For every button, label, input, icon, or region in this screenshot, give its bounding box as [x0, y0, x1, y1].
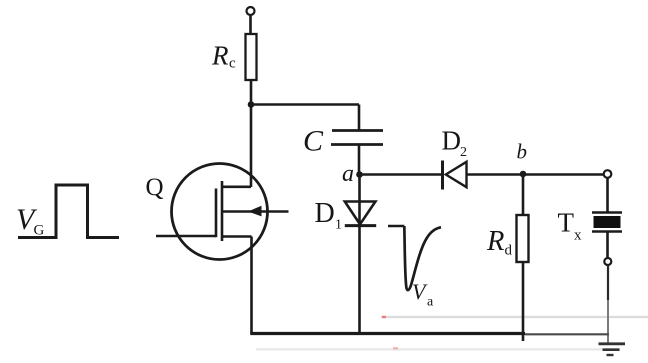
watermark line upper — [381, 316, 648, 318]
wire node a to D2 — [360, 173, 443, 176]
terminal (open circle, right) — [604, 170, 612, 178]
wire Rd to bottom rail (with stub below) — [522, 262, 525, 341]
watermark line lower — [256, 348, 620, 350]
svg-text:V: V — [412, 279, 428, 304]
wire lower terminal to ground (dark part) — [607, 265, 609, 300]
ground bar 3 — [607, 354, 614, 356]
svg-text:b: b — [517, 140, 528, 164]
wire D2 to node b to right terminal — [467, 173, 605, 176]
bottom rail (gray segment to ground) — [525, 333, 609, 335]
transducer Tx top electrode — [592, 211, 622, 214]
capacitor C top plate — [332, 129, 383, 132]
MOSFET Q gate lead wire — [156, 235, 216, 238]
diode D1 triangle — [345, 202, 376, 225]
svg-text:Q: Q — [146, 174, 164, 201]
svg-text:a: a — [342, 161, 354, 187]
MOSFET Q channel bar — [221, 181, 224, 241]
terminal (open circle, lower right) — [604, 258, 611, 265]
node a dot — [356, 171, 363, 178]
svg-text:2: 2 — [460, 145, 467, 160]
transducer Tx body (black block) — [594, 216, 621, 228]
supply terminal (open circle, top) — [247, 7, 255, 15]
transducer Tx bottom electrode — [592, 230, 622, 233]
Va waveform reference segment — [388, 225, 404, 228]
node b dot — [520, 171, 527, 178]
wire drain node to capacitor (horizontal) — [250, 103, 359, 106]
diode D1 cathode bar — [345, 224, 376, 227]
MOSFET Q body circle — [172, 164, 268, 260]
wire node a down through D1 to bottom rail — [358, 176, 361, 334]
wire capacitor to node a — [358, 145, 361, 176]
resistor Rd (body) — [517, 215, 529, 262]
diode D2 cathode bar — [441, 161, 444, 190]
wire Rc to drain (vertical) — [250, 80, 253, 187]
svg-text:x: x — [574, 228, 582, 244]
MOSFET Q drain stub — [222, 186, 251, 189]
MOSFET Q substrate line with arrow — [222, 210, 289, 213]
capacitor C bottom plate — [331, 143, 383, 146]
resistor Rc (body) — [246, 34, 257, 80]
svg-text:G: G — [34, 223, 45, 239]
wire terminal to Rc — [249, 15, 252, 34]
wire source down to bottom rail — [250, 237, 253, 335]
svg-text:R: R — [486, 226, 504, 257]
wire lower terminal to ground (gray part) — [607, 300, 609, 344]
wire node b down to Rd — [522, 176, 525, 215]
watermark red dot lower — [393, 347, 398, 349]
svg-text:a: a — [427, 295, 434, 310]
MOSFET Q substrate arrowhead — [248, 206, 262, 217]
svg-text:1: 1 — [335, 218, 342, 233]
svg-text:D: D — [315, 198, 335, 229]
diode D2 triangle — [446, 162, 467, 187]
svg-text:T: T — [558, 208, 575, 238]
svg-text:R: R — [211, 41, 229, 71]
MOSFET Q source stub — [222, 235, 252, 238]
wire down to capacitor top — [358, 105, 361, 131]
watermark red dot upper — [382, 316, 386, 318]
wire Tx to lower terminal — [606, 232, 609, 259]
ground bar 1 — [599, 342, 626, 345]
svg-text:C: C — [303, 125, 324, 158]
svg-text:d: d — [505, 243, 513, 259]
svg-text:c: c — [229, 56, 236, 72]
Va waveform (flyback spike curve) — [404, 226, 441, 290]
MOSFET Q gate bar — [215, 189, 218, 238]
VG input pulse waveform — [18, 185, 119, 238]
bottom rail (dark segment) — [250, 332, 525, 335]
wire terminal down to Tx — [606, 178, 609, 213]
ground bar 2 — [603, 348, 620, 351]
svg-text:D: D — [442, 126, 462, 156]
junction dot (drain node) — [248, 101, 255, 108]
